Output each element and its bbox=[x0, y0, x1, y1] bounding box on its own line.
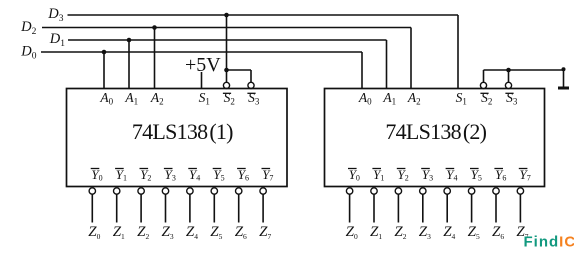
node Z6 label (U2) bbox=[492, 224, 504, 241]
node D1 label bbox=[49, 31, 65, 49]
node Z5 label (U2) bbox=[468, 224, 480, 241]
node Z3 label (U2) bbox=[419, 224, 431, 241]
svg-text:74LS138(2): 74LS138(2) bbox=[385, 119, 486, 144]
U2 pin label S3bar bbox=[505, 90, 517, 107]
U1 output bubble Y1 bbox=[114, 188, 120, 194]
wire U1 Y7 to Z7 bbox=[262, 194, 264, 222]
wire U2 S2bar to ground rail bbox=[484, 70, 564, 83]
U2 pin label A2 bbox=[407, 90, 421, 107]
node Z4 label (U2) bbox=[443, 224, 455, 241]
junction S3bar/ground rail bbox=[506, 68, 511, 73]
wire U2 Y7 to Z7 bbox=[519, 194, 521, 222]
node Z2 label (U2) bbox=[394, 224, 406, 241]
U1 pin label S3bar bbox=[247, 90, 259, 107]
wire D3 bus bbox=[68, 15, 459, 89]
U2 pin label Y2bar bbox=[397, 167, 409, 182]
U1 pin label A0 bbox=[99, 90, 113, 107]
U1 output bubble Y4 bbox=[187, 188, 193, 194]
wire D2 to U1 A2 bbox=[154, 28, 156, 89]
U1 pin label A2 bbox=[150, 90, 164, 107]
U1 pin label A1 bbox=[124, 90, 138, 107]
U1 pin label S2bar bbox=[223, 90, 235, 107]
U2 output bubble Y2 bbox=[395, 188, 401, 194]
wire U2 Y2 to Z2 bbox=[397, 194, 399, 222]
U2 output bubble Y1 bbox=[371, 188, 377, 194]
U1 pin label Y0bar bbox=[91, 167, 103, 182]
node Z4 label (U1) bbox=[186, 224, 198, 241]
IC U2 74LS138(2) box bbox=[325, 89, 545, 187]
U2 output bubble Y7 bbox=[517, 188, 523, 194]
junction ground rail corner bbox=[562, 67, 566, 71]
U1 output bubble Y7 bbox=[260, 188, 266, 194]
node Z1 label (U2) bbox=[370, 224, 382, 241]
wire U2 Y3 to Z3 bbox=[422, 194, 424, 222]
IC U1 name 74LS138(1) bbox=[132, 119, 233, 144]
U2 output bubble Y3 bbox=[420, 188, 426, 194]
node Z2 label (U1) bbox=[137, 224, 149, 241]
U2 pin label S2bar bbox=[480, 90, 492, 107]
wire U2 Y6 to Z6 bbox=[495, 194, 497, 222]
U1 pin label S1 bbox=[199, 90, 210, 107]
U1 pin label Y1bar bbox=[115, 167, 127, 182]
wire D2 bus bbox=[42, 28, 411, 89]
U1 pin label Y6bar bbox=[237, 167, 249, 182]
svg-text:FindIC: FindIC bbox=[524, 234, 574, 249]
node Z0 label (U2) bbox=[346, 224, 358, 241]
U2 output bubble Y4 bbox=[444, 188, 450, 194]
node Z0 label (U1) bbox=[88, 224, 100, 241]
U1 pin label Y2bar bbox=[140, 167, 152, 182]
U1 pin label Y3bar bbox=[164, 167, 176, 182]
junction D3/S2bar bbox=[224, 13, 229, 18]
U2 pin label Y5bar bbox=[470, 167, 482, 182]
U2 output bubble Y0 bbox=[346, 188, 352, 194]
node D3 label bbox=[47, 6, 63, 24]
junction D2/A2 bbox=[152, 25, 157, 30]
svg-text:74LS138(1): 74LS138(1) bbox=[132, 119, 233, 144]
inverter bubble U1 S3bar bbox=[248, 82, 254, 88]
wire U2 Y1 to Z1 bbox=[373, 194, 375, 222]
node D2 label bbox=[20, 19, 36, 37]
node Z5 label (U1) bbox=[210, 224, 222, 241]
U2 pin label Y0bar bbox=[348, 167, 360, 182]
U2 pin label Y6bar bbox=[494, 167, 506, 182]
inverter bubble U2 S2bar bbox=[480, 82, 486, 88]
U1 output bubble Y3 bbox=[162, 188, 168, 194]
wire U1 Y2 to Z2 bbox=[140, 194, 142, 222]
U1 output bubble Y2 bbox=[138, 188, 144, 194]
node Z1 label (U1) bbox=[113, 224, 125, 241]
wire D3 to U1 S2bar bbox=[226, 15, 228, 83]
wire U2 S3bar riser bbox=[508, 70, 510, 83]
IC U2 name 74LS138(2) bbox=[385, 119, 486, 144]
U2 pin label S1 bbox=[456, 90, 467, 107]
wire U1 Y4 to Z4 bbox=[189, 194, 191, 222]
U1 output bubble Y6 bbox=[236, 188, 242, 194]
wire U2 Y0 to Z0 bbox=[349, 194, 351, 222]
wire D0 bus bbox=[41, 52, 362, 89]
junction S2bar branch bbox=[224, 68, 229, 73]
wire U2 Y4 to Z4 bbox=[446, 194, 448, 222]
ground symbol bbox=[558, 87, 569, 90]
wire U1 Y3 to Z3 bbox=[165, 194, 167, 222]
node Z6 label (U1) bbox=[235, 224, 247, 241]
watermark FindIC bbox=[524, 234, 574, 251]
U1 output bubble Y0 bbox=[89, 188, 95, 194]
wire D0 to U1 A0 bbox=[103, 52, 105, 89]
wire U1 Y5 to Z5 bbox=[213, 194, 215, 222]
wire D1 bus bbox=[68, 40, 387, 89]
U1 output bubble Y5 bbox=[211, 188, 217, 194]
IC U1 74LS138(1) box bbox=[67, 89, 288, 187]
node Z3 label (U1) bbox=[162, 224, 174, 241]
wire U2 Y5 to Z5 bbox=[471, 194, 473, 222]
U1 pin label Y7bar bbox=[262, 167, 274, 182]
U1 pin label Y5bar bbox=[213, 167, 225, 182]
inverter bubble U1 S2bar bbox=[223, 82, 229, 88]
U2 pin label Y3bar bbox=[421, 167, 433, 182]
U1 pin label Y4bar bbox=[188, 167, 200, 182]
node Z7 label (U1) bbox=[259, 224, 271, 241]
wire U1 Y6 to Z6 bbox=[238, 194, 240, 222]
U2 output bubble Y6 bbox=[493, 188, 499, 194]
wire U1 Y0 to Z0 bbox=[91, 194, 93, 222]
wire +5V to U1 S1 bbox=[201, 72, 203, 89]
U2 pin label Y1bar bbox=[372, 167, 384, 182]
+5V supply label bbox=[185, 54, 221, 76]
U2 pin label Y4bar bbox=[446, 167, 458, 182]
node Z7 label (U2) bbox=[516, 224, 528, 241]
U2 pin label A1 bbox=[382, 90, 396, 107]
junction D0/A0 bbox=[102, 50, 107, 55]
wire ground riser bbox=[563, 70, 565, 87]
U2 pin label Y7bar bbox=[519, 167, 531, 182]
svg-text:+5V: +5V bbox=[185, 54, 221, 76]
wire U1 Y1 to Z1 bbox=[116, 194, 118, 222]
wire branch to U1 S3bar bbox=[227, 70, 252, 83]
junction D1/A1 bbox=[127, 38, 132, 43]
wire D1 to U1 A1 bbox=[128, 40, 130, 89]
U2 pin label A0 bbox=[358, 90, 372, 107]
U2 output bubble Y5 bbox=[468, 188, 474, 194]
node D0 label bbox=[20, 44, 36, 62]
inverter bubble U2 S3bar bbox=[505, 82, 511, 88]
